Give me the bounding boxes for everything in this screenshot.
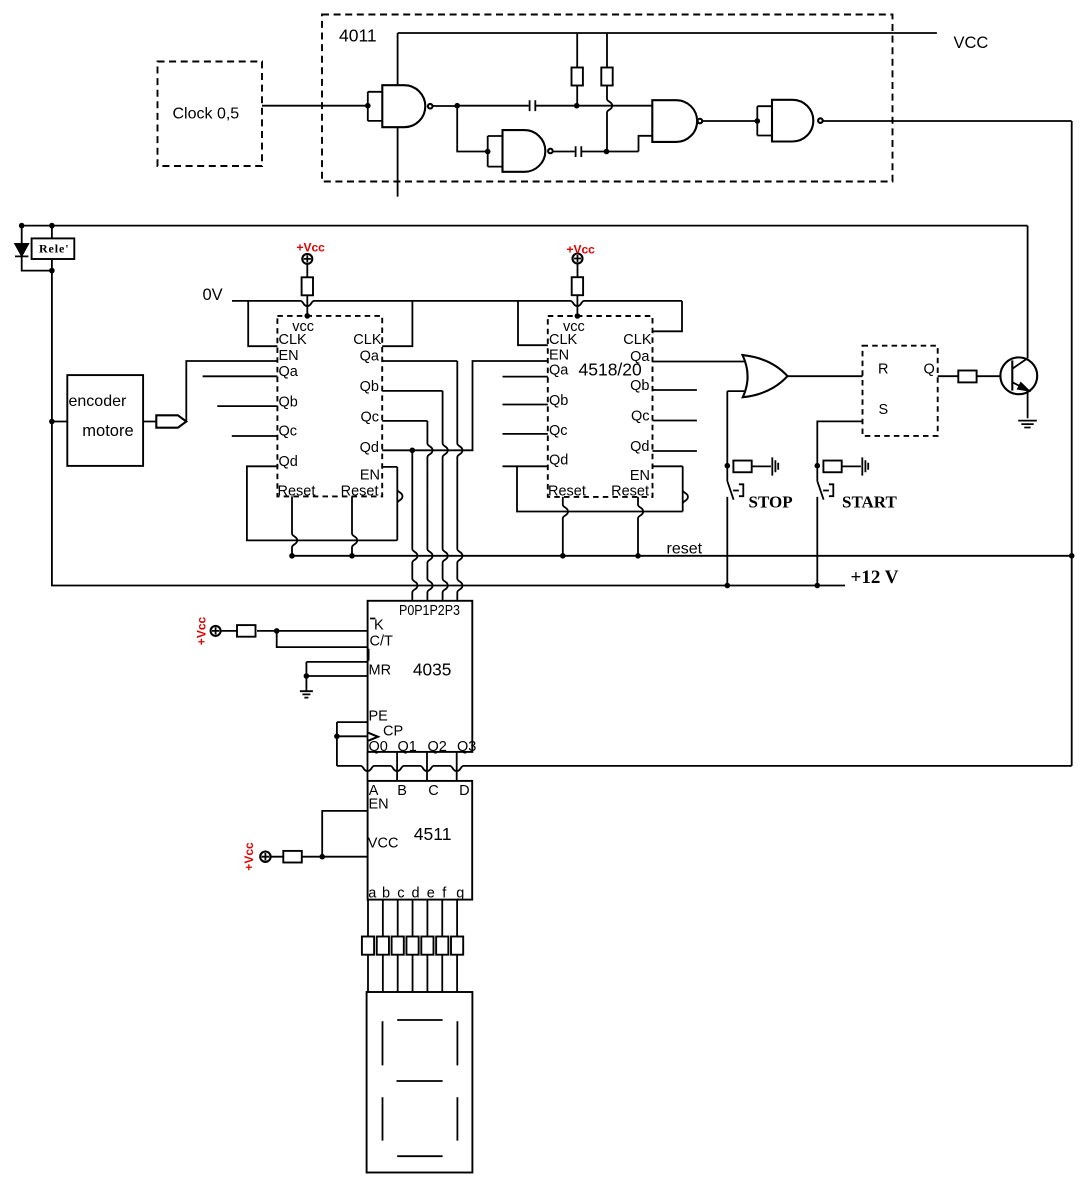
svg-text:e: e — [427, 886, 435, 902]
svg-text:b: b — [382, 886, 390, 902]
svg-text:P0P1P2P3: P0P1P2P3 — [399, 603, 460, 619]
svg-text:Qd: Qd — [279, 454, 298, 470]
svg-text:Reset: Reset — [548, 484, 586, 500]
svg-text:Reset: Reset — [341, 484, 379, 500]
svg-text:motore: motore — [82, 422, 133, 440]
svg-text:Clock 0,5: Clock 0,5 — [173, 106, 240, 123]
svg-text:Reset: Reset — [611, 484, 649, 500]
svg-text:EN: EN — [360, 468, 380, 484]
svg-text:B: B — [397, 783, 407, 799]
svg-text:Q1: Q1 — [398, 739, 417, 755]
svg-text:R: R — [878, 362, 888, 378]
svg-text:CP: CP — [383, 724, 403, 740]
svg-text:+Vcc: +Vcc — [195, 616, 209, 645]
svg-text:Qd: Qd — [630, 439, 649, 455]
svg-text:encoder: encoder — [69, 393, 127, 410]
svg-text:Qb: Qb — [360, 379, 379, 395]
svg-text:VCC: VCC — [954, 34, 989, 52]
svg-text:CLK: CLK — [623, 332, 652, 348]
svg-text:EN: EN — [549, 348, 569, 364]
svg-text:Qc: Qc — [549, 423, 568, 439]
svg-text:Qa: Qa — [549, 363, 569, 379]
svg-text:+Vcc: +Vcc — [242, 842, 256, 871]
svg-text:CLK: CLK — [549, 332, 578, 348]
svg-text:Qc: Qc — [360, 410, 379, 426]
svg-text:c: c — [397, 886, 404, 902]
svg-text:+Vcc: +Vcc — [567, 243, 596, 257]
svg-text:S: S — [879, 402, 889, 418]
svg-text:VCC: VCC — [368, 836, 399, 852]
svg-text:Reset: Reset — [278, 484, 316, 500]
svg-text:+Vcc: +Vcc — [297, 241, 326, 255]
svg-text:Qc: Qc — [279, 424, 298, 440]
svg-text:C/T: C/T — [370, 634, 394, 650]
svg-text:EN: EN — [279, 348, 299, 364]
svg-text:0V: 0V — [203, 286, 223, 304]
svg-text:D: D — [459, 783, 469, 799]
svg-text:K: K — [374, 618, 384, 634]
svg-text:CLK: CLK — [353, 332, 382, 348]
svg-text:4035: 4035 — [413, 660, 452, 680]
svg-text:Q2: Q2 — [428, 739, 447, 755]
svg-text:4511: 4511 — [414, 824, 452, 844]
svg-text:EN: EN — [630, 468, 650, 484]
svg-text:EN: EN — [369, 797, 389, 813]
svg-text:MR: MR — [369, 663, 392, 679]
svg-text:Qa: Qa — [279, 364, 299, 380]
svg-text:PE: PE — [369, 709, 389, 725]
svg-text:Q0: Q0 — [369, 739, 388, 755]
svg-text:START: START — [842, 493, 897, 512]
svg-text:g: g — [456, 886, 464, 902]
svg-text:4011: 4011 — [339, 26, 377, 46]
svg-text:CLK: CLK — [279, 332, 308, 348]
svg-text:Q3: Q3 — [457, 739, 476, 755]
svg-text:Qd: Qd — [360, 440, 379, 456]
svg-text:Qb: Qb — [279, 395, 298, 411]
svg-text:Q: Q — [924, 362, 935, 378]
svg-text:+12 V: +12 V — [851, 567, 899, 588]
svg-text:a: a — [368, 886, 377, 902]
svg-text:Qa: Qa — [630, 349, 650, 365]
svg-text:C: C — [428, 783, 438, 799]
svg-text:Qa: Qa — [360, 349, 380, 365]
svg-text:Rele': Rele' — [39, 241, 70, 255]
svg-text:reset: reset — [667, 541, 703, 558]
svg-text:Qd: Qd — [549, 453, 568, 469]
svg-text:Qc: Qc — [631, 409, 650, 425]
svg-text:Qb: Qb — [630, 378, 649, 394]
svg-text:d: d — [412, 886, 420, 902]
svg-text:Qb: Qb — [549, 393, 568, 409]
svg-text:STOP: STOP — [749, 493, 793, 512]
